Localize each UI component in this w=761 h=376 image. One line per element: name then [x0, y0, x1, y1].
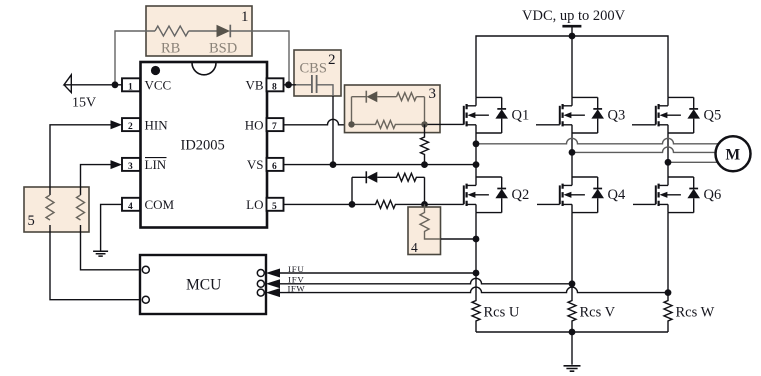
svg-text:Q3: Q3: [608, 108, 626, 124]
wire: W phase leg: [667, 133, 669, 177]
wire: box3 to Q1 gate: [428, 123, 464, 125]
highlight box 4 (LO pulldown resistor): [408, 207, 441, 255]
wire: rail to ground: [571, 332, 573, 365]
svg-text:VB: VB: [245, 78, 263, 93]
wire: Q6 source leg down through Rcs W: [664, 213, 672, 332]
node Q2 source / box4: [473, 236, 480, 243]
wire: Q2 source leg down through Rcs U: [472, 213, 480, 332]
node VDC: [569, 33, 576, 40]
node in box3 right (gray): [421, 121, 427, 127]
MCU pin circle left bottom: [142, 296, 149, 303]
resistor: gate pulldown below box3: [421, 124, 429, 164]
svg-text:HO: HO: [245, 117, 264, 132]
ground (power): [564, 366, 581, 371]
node LO left: [349, 201, 356, 208]
highlight box 3 (HO gate network): [345, 85, 441, 133]
svg-text:Q6: Q6: [704, 187, 722, 203]
svg-text:3: 3: [429, 86, 437, 102]
MCU pin circle right IFU: [257, 270, 264, 277]
highlight box 1 (bootstrap RB + BSD): [146, 6, 252, 56]
svg-text:5: 5: [272, 202, 277, 212]
svg-text:Q5: Q5: [704, 108, 722, 124]
node in box3 left (gray): [348, 121, 354, 127]
svg-text:2: 2: [328, 52, 336, 68]
svg-text:IFU: IFU: [288, 264, 305, 274]
motor M: [716, 136, 751, 171]
wire: LIN from MCU loop: [81, 165, 143, 270]
wire: U phase to motor (gray) with hops: [476, 138, 719, 144]
svg-text:6: 6: [272, 162, 277, 172]
wire: CBS down to VS line: [332, 96, 334, 165]
svg-text:7: 7: [272, 122, 277, 132]
MCU pin circle right IFW: [257, 289, 264, 296]
svg-text:15V: 15V: [72, 96, 96, 111]
svg-text:HIN: HIN: [145, 117, 169, 132]
wire: bootstrap loop VCC to RB (gray): [115, 31, 155, 85]
arrowhead IFU into MCU: [266, 269, 280, 278]
svg-text:Q4: Q4: [608, 187, 626, 203]
svg-text:1: 1: [128, 82, 133, 92]
node IFW tap: [665, 289, 672, 296]
wire: VDC rail: [476, 36, 668, 97]
wire: box4 to shunt node: [441, 238, 477, 240]
svg-text:Q2: Q2: [512, 187, 530, 203]
transistor Q5: [656, 97, 700, 133]
resistor: LO branch: [352, 173, 425, 181]
diode: LO branch (points left): [365, 171, 367, 183]
supply arrow 15V: [64, 75, 71, 93]
svg-text:COM: COM: [145, 197, 175, 212]
svg-text:8: 8: [272, 82, 277, 92]
transistor Q6: [656, 177, 700, 213]
pin 5 box: [267, 198, 284, 211]
supply bar VDC: [562, 25, 581, 28]
node U phase: [473, 140, 480, 147]
pin 2 box: [122, 118, 140, 131]
node VS/U midpoint: [473, 161, 480, 168]
wire: Q4 source leg down through Rcs V: [568, 213, 576, 332]
wire: box3 left vertical (gray): [351, 97, 353, 125]
resistor in box3 top branch (gray): [397, 93, 417, 101]
node LO right: [421, 201, 428, 208]
wire: LO pin5 line with series resistor: [284, 200, 464, 208]
svg-text:BSD: BSD: [209, 41, 237, 57]
svg-text:CBS: CBS: [300, 61, 327, 77]
pin 8 box: [267, 78, 284, 91]
svg-text:RB: RB: [161, 41, 180, 57]
node shunt rail: [569, 329, 576, 336]
junction node VCC: [112, 81, 119, 88]
ground (COM): [93, 251, 108, 256]
wire IFU sense line: [280, 272, 476, 274]
svg-text:4: 4: [411, 240, 418, 255]
node V phase: [569, 149, 576, 156]
node IFU tap: [473, 270, 480, 277]
svg-text:LIN: LIN: [145, 157, 167, 172]
wire: COM to ground: [101, 204, 122, 250]
transistor Q4: [560, 177, 604, 213]
wire: U phase leg (Q1 source to Q2 drain): [475, 133, 477, 177]
IC notch: [192, 63, 216, 75]
gate stub Q5: [632, 124, 656, 126]
svg-text:2: 2: [128, 122, 133, 132]
wire: VS pin6 line: [284, 164, 477, 166]
wire: VB to CBS (part gray): [284, 84, 297, 86]
svg-text:VS: VS: [247, 157, 264, 172]
diode in box3 (points left, gray): [365, 91, 367, 103]
svg-text:Rcs U: Rcs U: [484, 305, 520, 321]
arrowhead into pin 2: [111, 120, 123, 129]
wire: 15V to VCC pin1: [71, 84, 122, 86]
wire: HO pin7 to box3 with hop over CBS wire: [284, 119, 352, 125]
transistor Q3: [560, 97, 604, 133]
svg-text:1: 1: [241, 9, 249, 25]
svg-text:Rcs W: Rcs W: [676, 305, 715, 321]
highlight box 5 (input resistors): [24, 187, 89, 232]
svg-text:Q1: Q1: [512, 108, 530, 124]
resistor in box5 left (gray): [46, 195, 54, 220]
MCU pin circle left top: [142, 266, 149, 273]
arrowhead into pin 3: [111, 160, 123, 169]
transistor Q1: [464, 97, 508, 133]
wire: HIN from MCU loop: [50, 125, 142, 300]
wire: LO branch verticals: [352, 177, 425, 204]
junction node VB: [285, 81, 292, 88]
svg-text:4: 4: [128, 202, 133, 212]
svg-text:VCC: VCC: [145, 78, 172, 93]
MCU pin circle right IFV: [257, 280, 264, 287]
gate stub Q4: [537, 203, 560, 205]
svg-text:M: M: [726, 147, 741, 164]
capacitor CBS: [312, 75, 317, 93]
pin 7 box: [267, 118, 284, 131]
resistor in box3 bottom branch (gray): [352, 120, 425, 128]
wire: RB to BSD (gray): [189, 30, 217, 32]
resistor RB: [155, 26, 189, 36]
svg-text:MCU: MCU: [186, 277, 221, 294]
pin 3 box: [122, 158, 140, 171]
svg-text:VDC, up to 200V: VDC, up to 200V: [522, 8, 626, 24]
svg-text:5: 5: [28, 213, 35, 229]
op-amp U1: gate driver IC ID2005 body: [141, 62, 268, 228]
arrowhead IFW into MCU: [266, 288, 280, 297]
svg-text:LO: LO: [246, 197, 263, 212]
pin 1 box: [122, 78, 140, 91]
wire: W phase to motor (gray): [668, 161, 718, 163]
wire: BSD to VB node (gray): [230, 31, 289, 85]
wire: CBS to VS node (gray inside box): [318, 85, 334, 96]
highlight box 2 (CBS bootstrap cap): [294, 50, 341, 96]
arrowhead IFV into MCU: [266, 279, 280, 288]
MCU box: [140, 255, 266, 314]
resistor in box4 (gray): [420, 204, 441, 239]
IC pin1 marker dot: [151, 66, 160, 75]
svg-text:3: 3: [128, 162, 133, 172]
gate stub Q6: [633, 203, 656, 205]
pin 4 box: [122, 198, 140, 211]
diode BSD: [217, 25, 231, 38]
svg-text:Rcs V: Rcs V: [580, 305, 616, 321]
wire: V phase leg: [571, 133, 573, 177]
wire IFV sense line with hop at U leg: [280, 278, 572, 284]
node VS-CBS: [330, 161, 337, 168]
wire IFW sense line with hops at U and V legs: [280, 287, 668, 292]
node W phase: [665, 159, 672, 166]
node IFV tap: [569, 280, 576, 287]
gate stub Q3: [536, 124, 560, 126]
wire: shunt bottom rail: [476, 331, 668, 333]
pin 6 box: [267, 158, 284, 171]
svg-text:IFW: IFW: [288, 283, 306, 293]
wire: V phase to motor (gray) with hop: [572, 147, 716, 153]
svg-text:ID2005: ID2005: [181, 138, 225, 154]
transistor Q2: [464, 177, 508, 213]
node VS-pulldown: [421, 161, 428, 168]
resistor in box5 right (gray): [77, 195, 85, 220]
